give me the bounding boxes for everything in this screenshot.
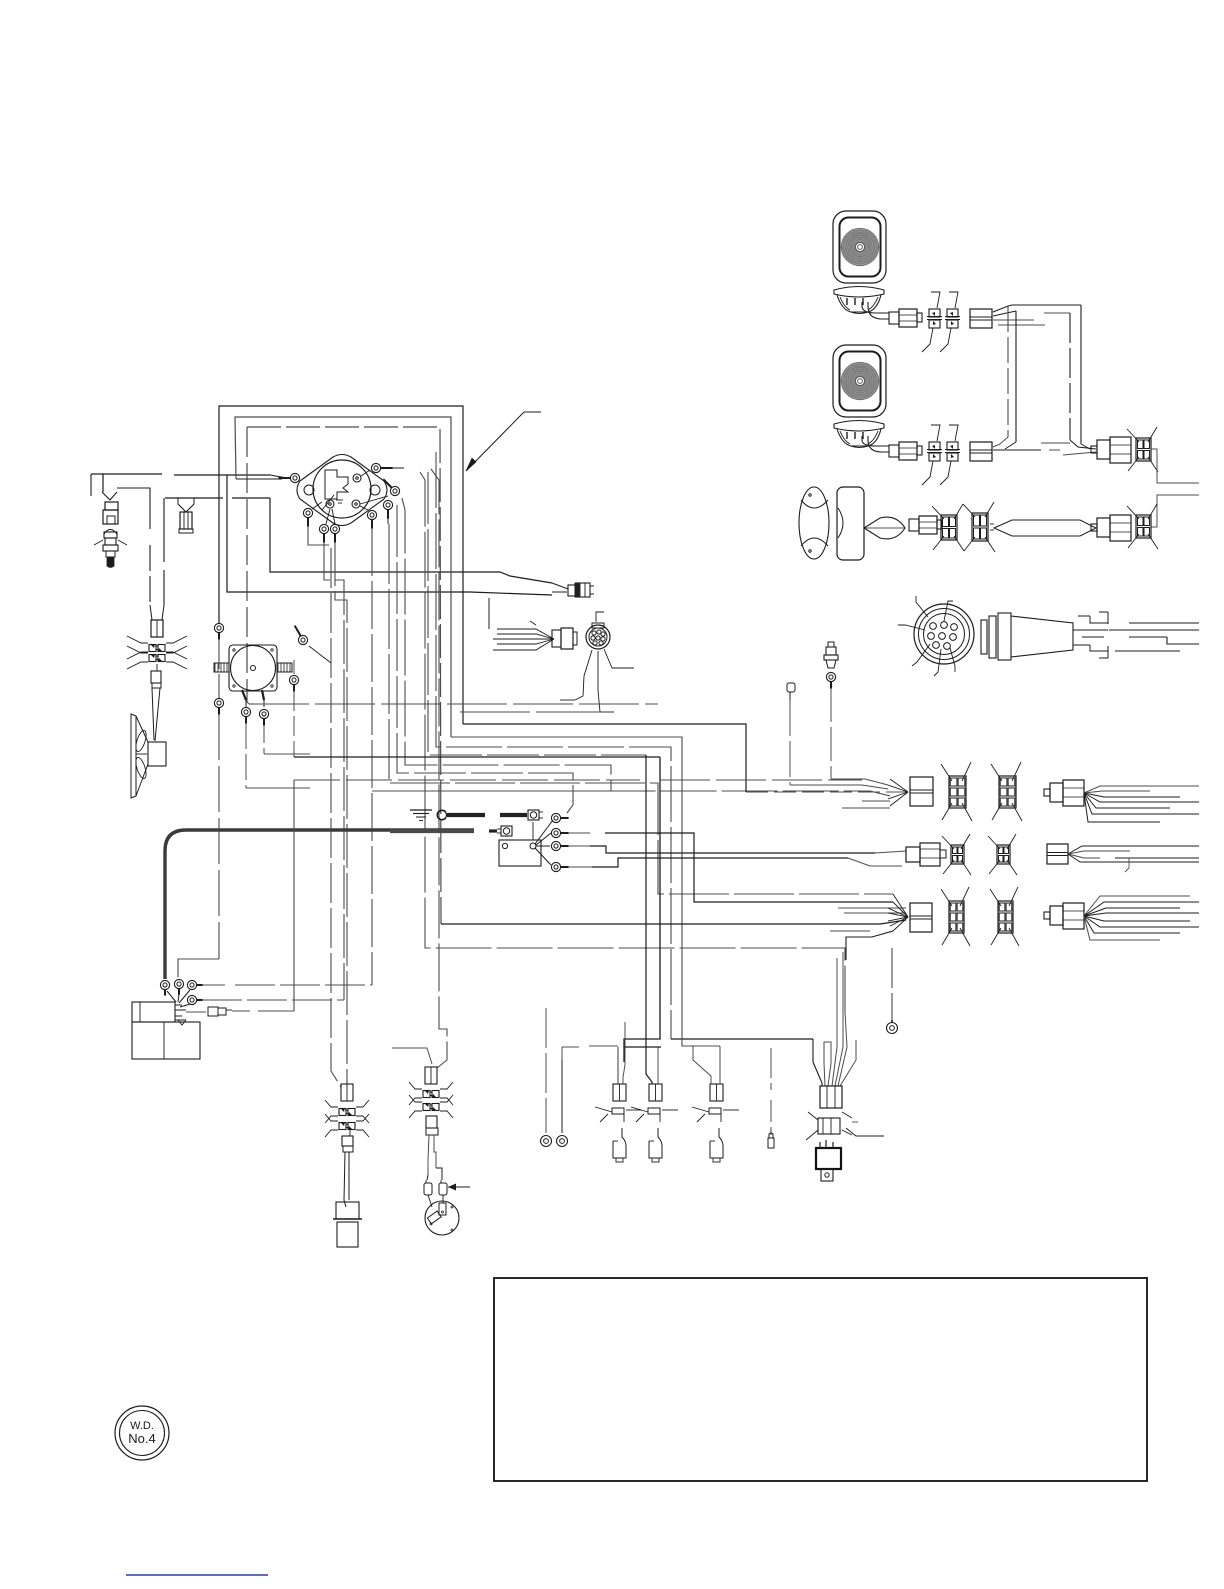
switch pigtail 2: [631, 1084, 678, 1162]
footer underline: [126, 1574, 268, 1576]
ring terminal bat4: [180, 995, 344, 1007]
terminal chainB R: [439, 1180, 447, 1203]
ignition switch key slot: [322, 470, 348, 510]
wire loop mid: [235, 417, 451, 737]
spark plug cap 2: [178, 504, 194, 533]
ring terminal bat2: [174, 979, 183, 1002]
headlamp RH: [833, 345, 886, 417]
wire ring L1: [545, 1008, 547, 1133]
battery terminals: [175, 1005, 186, 1025]
switch terminal B: [353, 474, 361, 482]
connector relay: [820, 1086, 842, 1108]
wire coil chain right: [162, 498, 164, 620]
receptacle LH lamp: [970, 309, 992, 328]
switch terminal L: [352, 500, 360, 508]
wire v-row1b: [402, 498, 890, 796]
connector chainA: [341, 1084, 353, 1101]
bolt terminal 2: [497, 826, 512, 836]
ignition switch mounting plate: [297, 455, 387, 526]
wire v-chainA-left: [308, 526, 341, 1087]
ignition switch body: [313, 460, 371, 518]
wire tail branch to right: [1151, 495, 1199, 527]
ground strap heavy 1: [447, 813, 527, 817]
wire row3 short feeds: [441, 908, 906, 960]
wire v-pigtails: [451, 737, 720, 1046]
bullet connector pair RH branch: [1127, 427, 1158, 472]
arrow callout: [466, 412, 541, 471]
ring terminal sw-b2: [330, 509, 339, 543]
ring terminal bat1: [160, 980, 176, 1002]
ground plate: [499, 840, 541, 866]
switch pigtail 3: [692, 1084, 739, 1162]
ring terminal bl1: [541, 1136, 552, 1147]
plug harness RH branch: [1091, 437, 1131, 463]
wire relay feeds: [813, 952, 856, 1086]
ring terminal pump1: [241, 707, 310, 788]
plug relay: [806, 1112, 884, 1140]
receptacle center: [489, 598, 577, 650]
sender switch: [824, 642, 838, 668]
ring terminal sw-left: [272, 473, 300, 482]
bullet connector pair tail B: [963, 502, 995, 552]
wire v-row3feed: [389, 524, 893, 894]
plug row2: [906, 843, 946, 866]
bullet pair coil B: [127, 646, 187, 669]
connector block coil: [151, 620, 163, 637]
legend box: [494, 1278, 1147, 1481]
wire v-bat4: [324, 542, 344, 1000]
cavity block row1 A: [941, 762, 972, 821]
bullet pair coil A: [127, 636, 187, 659]
plug tail branch: [1091, 515, 1131, 541]
wire coil chain left: [117, 488, 152, 620]
round connector face: [898, 596, 974, 676]
bullet connector pair RH lamp A: [922, 425, 942, 485]
wire v-row1c: [372, 790, 611, 792]
thin bullet terminal: [768, 1048, 774, 1148]
wire v-relayfeed: [420, 472, 845, 1012]
blade terminal small: [787, 683, 888, 789]
wire horizontals above pigtails: [562, 1046, 661, 1060]
cavity block row3 B: [990, 887, 1019, 946]
bullet pair chainA 1: [325, 1100, 369, 1123]
bullet connector pair RH lamp B: [940, 425, 960, 485]
wire ring x892: [891, 948, 893, 1020]
ring terminal pump mid: [289, 660, 298, 692]
fuel gauge sender: [425, 1201, 459, 1235]
cavity block row2 B: [988, 834, 1017, 875]
terminal chainB L: [424, 1180, 432, 1207]
bullet connector pair tail A: [932, 504, 964, 551]
wire v-chainB: [431, 469, 447, 1068]
fan wires row1 right: [1084, 786, 1199, 822]
round connector center: [560, 612, 634, 712]
wire v-pigtail1: [436, 452, 813, 1039]
bullet connector pair LH lamp B: [940, 292, 960, 352]
plug tail lamp: [909, 516, 942, 534]
bullet pair chainA 2: [325, 1114, 369, 1137]
wire lead to horn: [152, 688, 160, 741]
wire headlamp RH to plug: [862, 436, 889, 452]
arrow chainB: [448, 1184, 470, 1191]
ring terminal sw-b1: [319, 509, 330, 543]
ground stud: [530, 843, 536, 849]
wire run x1016: [1015, 311, 1017, 442]
ring terminal gp3: [551, 841, 906, 853]
wire RH lamp receptacle to harness: [993, 437, 1060, 450]
wire v-row1a: [463, 724, 908, 792]
plug coil: [151, 664, 161, 688]
wire HT lead 1: [91, 474, 287, 496]
wire HT lead 2: [165, 498, 270, 504]
receptacle RH lamp: [970, 442, 992, 461]
bullet connector center: [505, 572, 594, 597]
battery upper box: [132, 1002, 175, 1022]
svg-text:No.4: No.4: [128, 1431, 155, 1446]
ring terminal sw-right1: [360, 479, 400, 504]
fuel pump fitting right: [277, 663, 292, 672]
twisted wire bundle tail: [990, 520, 1096, 536]
WD No4 stamp: [115, 1406, 169, 1460]
spark plug cap 1: [102, 492, 118, 524]
fan connector row3: [888, 894, 932, 932]
ring terminal sw-top: [361, 463, 404, 476]
wire Q to bullet: [227, 475, 552, 595]
ring terminal bl2: [557, 1136, 568, 1147]
horn: [131, 714, 148, 798]
wire row1 short feeds: [842, 801, 890, 808]
ring terminal x892: [887, 1020, 898, 1034]
cable wires right: [1073, 612, 1199, 658]
ring terminal sw-bl: [303, 502, 322, 527]
headlamp LH: [833, 211, 886, 283]
ring terminal gp2: [551, 828, 893, 902]
bullet pair chainB 2: [409, 1095, 453, 1118]
ring terminal gp4: [551, 858, 902, 872]
connector row2 right: [1047, 844, 1068, 864]
fan wires row3 right: [1084, 896, 1199, 940]
fuel pump body: [229, 645, 277, 691]
fuel pump lead 1: [242, 690, 246, 707]
bullet connector pair LH lamp A: [922, 292, 942, 352]
wire P to bullet: [270, 498, 552, 583]
wire run x1070: [1069, 313, 1071, 440]
wire v-pigtail2: [428, 472, 646, 1030]
wire loop inner stub: [246, 427, 248, 702]
wire run x1008: [1007, 306, 1009, 437]
wire center upper horiz: [247, 702, 658, 712]
ground fan lines: [533, 820, 553, 865]
wire ring L2: [561, 1060, 563, 1133]
wire harness into RH branch plug: [1041, 440, 1096, 455]
wire loop inner: [247, 427, 441, 924]
wire v-gp1: [397, 505, 573, 813]
switch terminal M: [326, 500, 343, 508]
ring terminal left col: [214, 623, 223, 639]
ring terminal sw-b3: [360, 506, 377, 529]
ring terminal pump2: [259, 709, 310, 754]
wire v-chainA-right: [335, 542, 347, 1084]
battery cable positive: [165, 830, 474, 979]
wire pigtail feeds: [618, 1022, 720, 1084]
ground strap heavy 2: [390, 829, 497, 833]
ring terminal bat3: [179, 980, 372, 1003]
relay: [816, 1140, 841, 1181]
tail lamp housing: [837, 487, 864, 560]
wire loop mid to ring: [236, 478, 272, 480]
bolt terminal 1: [528, 810, 543, 820]
ground symbol: [410, 810, 432, 821]
wire headlamp LH to plug: [862, 302, 889, 319]
ring terminal sender: [826, 672, 888, 785]
fan connector row1: [888, 777, 933, 806]
wire RH branch to right: [1151, 449, 1199, 483]
cavity block row2 A: [942, 834, 971, 875]
plug headlamp RH: [889, 442, 922, 460]
wire loop outer: [219, 406, 463, 724]
plug row3: [1044, 903, 1084, 929]
wire chainB down: [427, 1135, 442, 1180]
wire pump mid to relay col: [294, 691, 660, 1062]
wire left col: [178, 639, 219, 977]
ring terminal ground: [437, 810, 447, 820]
horn body: [148, 742, 166, 766]
switch pigtail 1: [595, 1084, 642, 1162]
battery lower box: [132, 1022, 200, 1059]
ring terminal sw-right2: [383, 500, 392, 524]
plug chainB: [426, 1116, 438, 1135]
connector chainB: [425, 1067, 437, 1084]
spark plug 1: [94, 530, 127, 568]
tail lamp lens: [799, 487, 829, 559]
cavity block row3 A: [941, 887, 970, 946]
ring terminal left col2: [214, 698, 223, 714]
fan wires row2: [1068, 846, 1199, 872]
fuel pickup cylinder: [333, 1202, 362, 1247]
wire chainA down: [344, 1152, 349, 1207]
fuel pump fitting left: [214, 663, 229, 672]
headlamp RH socket bucket: [834, 421, 884, 448]
ring terminal gp1: [551, 813, 568, 822]
wire v-bat3: [371, 528, 373, 985]
fuel pump lead 2: [262, 690, 264, 707]
headlamp LH socket bucket: [834, 287, 884, 314]
wire v-chainB2: [392, 1048, 432, 1064]
plug row1: [1044, 780, 1084, 806]
inline fuse: [186, 780, 862, 1016]
plug headlamp LH: [889, 309, 922, 327]
bullet connector pair tail branch: [1127, 504, 1158, 549]
cavity block row1 B: [991, 762, 1022, 821]
ring terminal pump right: [295, 626, 331, 663]
bullet pair chainB 1: [409, 1082, 453, 1105]
wire harness from LH lamp receptacle: [993, 305, 1081, 325]
plug chainA: [342, 1129, 353, 1152]
tail lamp bulb holder: [864, 517, 905, 539]
wire run x1081: [1080, 305, 1082, 444]
cable connector side: [981, 613, 1073, 660]
